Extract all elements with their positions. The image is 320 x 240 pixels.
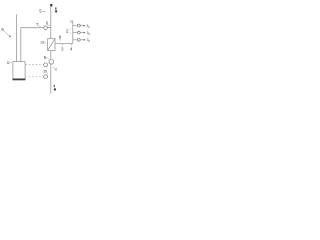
svg-text:26: 26 [43, 69, 47, 73]
svg-text:2: 2 [55, 67, 57, 71]
svg-text:22: 22 [70, 20, 74, 24]
svg-text:12: 12 [40, 41, 44, 45]
